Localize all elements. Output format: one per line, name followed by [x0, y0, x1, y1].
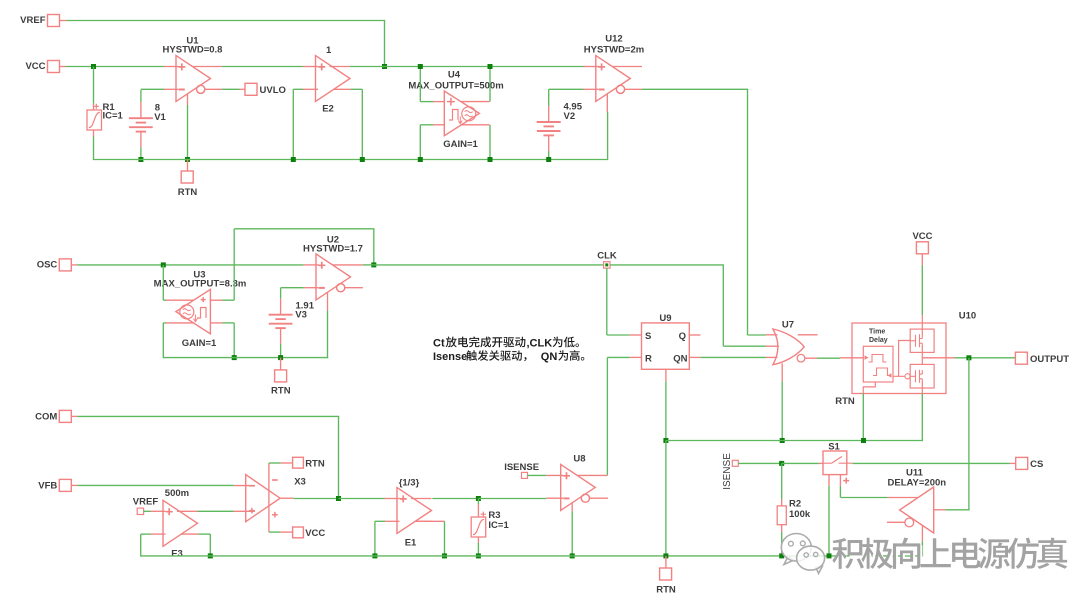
junction U7 ground / RTN rail: [780, 438, 785, 443]
U1 - input stub: [164, 88, 179, 90]
U2 output stub: [345, 287, 363, 289]
wire VREF horizontal: [67, 20, 386, 22]
wire OSC down to U3 out+: [162, 265, 164, 300]
buffer E2 in+ inner line: [330, 66, 351, 68]
wire R2 to bottom rail: [781, 532, 783, 557]
wire E3 out- horizontal: [198, 533, 210, 535]
svg-text:X3: X3: [294, 477, 306, 488]
wire U4 out+ to top rail: [489, 67, 491, 102]
junction RTN vertical / bottom rail: [663, 553, 668, 558]
U1 + input stub: [164, 66, 179, 68]
vcvs E3 in- stub: [151, 533, 166, 535]
op-amp U1 - glyph: [179, 89, 185, 91]
driver U10 outer box: [852, 323, 946, 394]
U3 out+ stub: [166, 299, 194, 301]
port VCC square: [48, 61, 60, 73]
port VCC square (top right): [916, 242, 928, 254]
U8 ground pin stub: [571, 503, 573, 512]
wire RTN vertical to bottom rail: [665, 441, 667, 556]
op-amp U2 + glyph: [318, 262, 325, 269]
wire V1 to U1 -: [141, 88, 164, 90]
svg-text:IC=1: IC=1: [103, 111, 124, 122]
svg-text:Q: Q: [679, 331, 686, 342]
U1 output stub: [205, 88, 222, 90]
wire U1 output to UVLO: [222, 88, 240, 90]
mosfet M2 symbol: [910, 370, 922, 383]
wire V3 to mid rail: [280, 344, 282, 358]
junction R2 / bottom rail: [779, 553, 784, 558]
svg-text:{1/3}: {1/3}: [399, 478, 420, 489]
wire R1 to ground rail: [93, 137, 95, 161]
U10 VCC feed line inside: [921, 315, 923, 394]
watermark wechat logo eyes: [789, 541, 818, 557]
junction VCC / R1: [91, 64, 96, 69]
V1 top stub: [140, 102, 142, 118]
svg-text:U10: U10: [959, 311, 976, 322]
wire U11 ground pin to rail: [921, 542, 923, 557]
wire R2 top: [781, 463, 783, 499]
X3 supply line vertical: [268, 463, 270, 532]
driver U10 gate link lines: [893, 341, 910, 377]
resistor R3 body: [471, 517, 486, 537]
svg-text:Time: Time: [869, 329, 885, 336]
limiter U3 step glyph: [197, 308, 206, 319]
junction U4 in- / ground rail: [418, 157, 423, 162]
port VCC square (X3): [293, 527, 304, 538]
op-amp U8 - glyph: [564, 497, 570, 499]
U12 ground pin stub: [606, 94, 608, 112]
driver U10 input arrow glyph: [865, 355, 869, 360]
wire E2 out- horizontal: [351, 88, 363, 90]
wire U10 output to OUTPUT port: [955, 357, 1016, 359]
U1 ground pin stub: [187, 94, 189, 105]
wire U2 ground pin down: [327, 311, 329, 359]
svg-text:ISENSE: ISENSE: [722, 453, 733, 490]
limiter U4 source circle glyph: [462, 107, 476, 121]
vcvs E1 in+ inner line: [411, 498, 432, 500]
op-amp U2 body: [316, 254, 351, 300]
X3 output stub: [280, 497, 294, 499]
wire U12 output into U7 upper input: [748, 334, 766, 336]
wire E2 in- horizontal: [293, 88, 303, 90]
nor-gate U7 body: [773, 329, 804, 365]
vcvs E3 in+ inner line: [177, 510, 198, 512]
wire E1 in- down to rail: [374, 521, 376, 556]
wire U3 in+ up to loop: [233, 229, 235, 300]
wire OSC line to U2 +: [77, 264, 303, 266]
U4 in+ stub: [433, 101, 444, 103]
U3 in+ stub: [210, 299, 222, 301]
svg-text:OSC: OSC: [37, 259, 58, 270]
driver U10 pulse glyph 2: [873, 368, 891, 376]
port RTN square (bottom): [660, 568, 672, 580]
wire U3 out+ horizontal: [163, 299, 166, 301]
wire OSC line to CLK: [374, 264, 604, 266]
junction E3 out- / bottom rail: [208, 553, 213, 558]
wire R3 to bottom rail: [477, 543, 479, 557]
resistor R1 body: [87, 110, 102, 130]
svg-text:500m: 500m: [165, 488, 189, 499]
watermark text white layer: [834, 540, 1069, 571]
S1 control stub: [839, 475, 841, 486]
flip-flop U9 box: [642, 323, 690, 369]
vcvs E1 in+ line: [385, 498, 400, 500]
vcvs E3 body: [163, 500, 198, 546]
wire U12 output down to U7: [747, 89, 749, 335]
U2 + input stub: [304, 264, 319, 266]
R2 top stub: [781, 499, 783, 506]
wire CLK to U7 mid input: [723, 345, 766, 347]
svg-text:100k: 100k: [789, 509, 811, 520]
junction S1 / bottom rail: [827, 553, 832, 558]
wire VREF marker to E3: [144, 510, 151, 512]
wire CLK to the right: [610, 264, 724, 266]
U3 in- stub: [210, 322, 222, 324]
E1 out- stub long: [416, 520, 445, 522]
U2 + line extension: [333, 264, 363, 266]
U12 - input stub: [584, 88, 599, 90]
junction VREF / VCC rail: [382, 64, 387, 69]
svg-text:R2: R2: [789, 499, 801, 510]
op-amp U12 - glyph: [599, 89, 605, 91]
wire U12 ground pin to rail: [607, 112, 609, 160]
junction V3 / mid rail: [278, 355, 283, 360]
wire CLK down to U7 mid input: [722, 265, 724, 346]
limiter U4 body: [444, 91, 479, 136]
wire ISENSE to R2 junction: [738, 462, 781, 464]
R2 bottom stub: [781, 525, 783, 532]
RTN stub under U1: [187, 160, 189, 172]
port COM square: [59, 410, 71, 422]
wire S1 to CS port: [853, 462, 1010, 464]
junction E2 out- / rail: [360, 157, 365, 162]
wire U3 out- horizontal: [163, 322, 166, 324]
svg-text:VREF: VREF: [133, 497, 159, 508]
wire OUTPUT node to U11 input: [945, 509, 969, 511]
U7 input stub middle: [766, 345, 779, 347]
wire E2 out- down to rail: [361, 89, 363, 159]
wire X3 V- horizontal: [269, 531, 281, 533]
buffer E2 in- stub: [303, 88, 318, 90]
net marker ISENSE (S1): [732, 460, 738, 466]
svg-text:,CLK: ,CLK: [527, 337, 553, 349]
op-amp U12 body: [596, 56, 631, 102]
port VFB square: [59, 479, 71, 491]
vcvs E1 in- stub: [385, 520, 400, 522]
wire X3 output to junction: [294, 498, 339, 500]
svg-text:VCC: VCC: [912, 231, 932, 242]
svg-text:R: R: [645, 354, 652, 365]
U8 output stub: [590, 497, 608, 499]
svg-text:CS: CS: [1030, 459, 1043, 470]
U8 - input stub: [546, 497, 563, 499]
wire CLK to U9 S horizontal: [607, 334, 630, 336]
driver U10 inner delay box: [863, 346, 893, 382]
svg-text:U4: U4: [448, 70, 461, 81]
wire VFB to X3 in-: [77, 484, 234, 486]
wire V3 top vertical: [280, 288, 282, 299]
wire U2 feedback loop drop: [373, 229, 375, 265]
U10 output line: [922, 357, 954, 359]
wire top ground rail: [94, 159, 608, 161]
vcvs E3 + glyph: [166, 508, 173, 515]
limiter U3 + glyph: [201, 297, 206, 302]
U7 input stub upper: [766, 334, 778, 336]
op-amp U8 body: [561, 464, 596, 510]
svg-text:DELAY=200n: DELAY=200n: [888, 477, 947, 488]
svg-text:E1: E1: [405, 538, 417, 549]
wire E2 out+ rail to U12 +: [350, 66, 585, 68]
svg-text:IC=1: IC=1: [488, 520, 509, 531]
junction E2 in- / rail: [291, 157, 296, 162]
switch S1 contact glyph: [823, 457, 853, 464]
wire V2 top vertical: [548, 89, 550, 106]
U12 + input stub: [584, 66, 599, 68]
X3 in+ line: [234, 510, 255, 512]
op-amp U8 + glyph: [563, 472, 570, 479]
svg-text:GAIN=1: GAIN=1: [182, 338, 217, 349]
svg-text:RTN: RTN: [656, 585, 676, 596]
wire U4 in+ from top rail: [419, 67, 421, 102]
junction U4 out+ / top rail: [488, 64, 493, 69]
port UVLO square: [245, 83, 257, 95]
U11 output stub: [887, 521, 905, 523]
wire U7 ground pin down: [781, 381, 783, 440]
svg-text:UVLO: UVLO: [260, 85, 286, 96]
op-amp U2 output bubble: [337, 284, 345, 292]
svg-text:CLK: CLK: [597, 251, 617, 262]
U9 S input stub: [630, 334, 642, 336]
mosfet M2 box (lower): [910, 364, 934, 388]
net marker ISENSE (U8): [522, 472, 528, 478]
resistor R3 + mark: [481, 512, 486, 517]
nor-gate U7 output bubble: [797, 354, 805, 362]
buffer E2 out- stub: [334, 88, 351, 90]
X3 - glyph (input): [249, 485, 255, 487]
svg-text:V3: V3: [295, 310, 307, 321]
limiter U4 + glyph: [447, 98, 455, 106]
RTN port stub (bottom): [665, 556, 667, 568]
junction U4 in+ / top rail: [418, 64, 423, 69]
X3 + glyph (input): [249, 508, 255, 514]
svg-text:E3: E3: [171, 549, 183, 560]
buffer E2 + glyph: [318, 63, 325, 70]
wire UVLO stub: [240, 88, 246, 90]
voltage source V2 battery plates: [537, 121, 561, 123]
R3 top stub: [477, 504, 479, 517]
resistor R2 body: [777, 506, 786, 525]
wire COM down to X3 out: [338, 416, 340, 498]
S1 bottom-left stub: [828, 475, 830, 486]
svg-text:RTN: RTN: [178, 187, 198, 198]
svg-text:Ct: Ct: [433, 337, 445, 349]
wire VCC down to U10: [921, 265, 923, 315]
wire U2 + to junction: [363, 264, 374, 266]
wire to E1 in+: [339, 498, 386, 500]
wire U3 in- horizontal: [223, 322, 235, 324]
wire S1 bottom-left to rail: [828, 486, 830, 557]
wire V3 to U2 -: [281, 287, 304, 289]
VCC stub down: [921, 254, 923, 265]
wire U12 output horizontal: [642, 88, 748, 90]
wire U4 in- horizontal: [420, 124, 433, 126]
switch S1 box: [823, 451, 847, 475]
svg-text:HYSTWD=2m: HYSTWD=2m: [584, 45, 644, 56]
wire bottom RTN rail: [141, 555, 923, 557]
X3 - glyph (supply): [272, 479, 278, 481]
junction U10 RTN / rail: [861, 438, 866, 443]
R1 bottom stub: [93, 130, 95, 137]
buffer E2 body: [316, 56, 351, 102]
junction U4 out- / ground rail: [488, 157, 493, 162]
S1 left stub: [819, 462, 823, 464]
V3 bottom stub: [280, 328, 282, 344]
U10 RTN pin path: [863, 382, 875, 394]
junction U3 in- / mid rail: [232, 355, 237, 360]
junction R3 / signal: [476, 496, 481, 501]
wire U1 ground pin to rail: [187, 105, 189, 160]
port OSC square: [59, 259, 71, 271]
svg-text:V1: V1: [154, 112, 166, 123]
watermark wechat logo big bubble: [781, 534, 824, 574]
wire OUTPUT node down to U11: [968, 358, 970, 510]
vcvs E1 out- stub: [415, 520, 432, 522]
wire U9 R down to U8 + line: [606, 357, 608, 475]
voltage source V3 battery plates: [269, 314, 293, 316]
wire R3 top: [477, 499, 479, 505]
RTN stub under V3: [280, 358, 282, 370]
wire mid ground rail: [163, 357, 328, 359]
wire VREF stub: [60, 20, 67, 22]
X3 V- stub: [280, 531, 292, 533]
junction OSC / U3 out+: [161, 262, 166, 267]
wire OSC stub: [71, 264, 77, 266]
junction R3 / bottom rail: [476, 553, 481, 558]
port RTN square (mid section): [275, 370, 287, 382]
wire CS stub: [1010, 462, 1016, 464]
wire S1 control to U11: [840, 497, 887, 499]
V3 top stub: [280, 299, 282, 315]
wire VCC junction down to R1: [93, 67, 95, 104]
U11 output bubble: [905, 518, 914, 527]
buffer E2 in+ line: [303, 66, 318, 68]
wire CLK down to U9 S: [606, 268, 608, 335]
vcvs E3 out- stub: [181, 533, 198, 535]
svg-text:VFB: VFB: [38, 480, 57, 491]
svg-text:Delay: Delay: [869, 337, 888, 344]
junction OUTPUT node: [966, 355, 971, 360]
svg-text:HYSTWD=1.7: HYSTWD=1.7: [303, 244, 363, 255]
limiter U3 source circle glyph: [180, 305, 194, 319]
U8 + line extension: [577, 474, 607, 476]
X3 V+ stub: [280, 462, 292, 464]
driver U10 pulse glyph 1: [869, 355, 887, 363]
op-amp U1 output bubble: [197, 85, 205, 93]
wire U9 QN to U7 lower input: [700, 356, 766, 358]
op-amp U1 + glyph: [178, 63, 185, 70]
X3 in- line: [234, 485, 255, 487]
op-amp U8 output bubble: [581, 494, 589, 502]
wire VCC to U1 +: [66, 66, 165, 68]
op-amp X3 body: [246, 475, 280, 522]
port CS square: [1016, 457, 1028, 469]
limiter U3 body: [176, 289, 211, 334]
junction U8 ground / bottom rail: [570, 553, 575, 558]
svg-text:VCC: VCC: [25, 61, 45, 72]
wire U2 feedback loop top: [234, 228, 374, 230]
port RTN square (X3): [293, 457, 304, 468]
junction E1 in- / bottom rail: [372, 553, 377, 558]
voltage source V1 battery plates: [129, 117, 153, 119]
op-amp U12 output bubble: [616, 85, 624, 93]
U3 out- stub: [166, 322, 194, 324]
svg-text:VCC: VCC: [305, 528, 325, 539]
wire U9 ground pin down: [665, 382, 667, 441]
junction V1 / ground rail: [138, 157, 143, 162]
X3 + glyph (supply): [272, 512, 278, 518]
svg-text:OUTPUT: OUTPUT: [1030, 354, 1069, 365]
svg-text:QN: QN: [673, 354, 687, 365]
U10 input stub: [840, 357, 863, 359]
svg-text:V2: V2: [564, 111, 576, 122]
wire U4 in- to ground rail: [419, 125, 421, 160]
U11 ground pin stub: [921, 526, 923, 542]
U2 - input stub: [304, 287, 319, 289]
V2 top stub: [548, 106, 550, 122]
junction X3 out / COM: [336, 496, 341, 501]
svg-text:RTN: RTN: [305, 459, 325, 470]
op-amp U2 - glyph: [319, 287, 325, 289]
wire V2 to ground rail: [548, 151, 550, 160]
wire U8 ground pin down: [571, 512, 573, 557]
svg-text:U7: U7: [782, 320, 794, 331]
wire E2 in- down to rail: [292, 89, 294, 159]
wire COM stub: [71, 415, 77, 417]
U7 upper line extension: [798, 334, 818, 336]
vcvs E1 + glyph: [400, 495, 407, 502]
svg-text:QN: QN: [541, 351, 558, 363]
junction V2 / ground rail: [546, 157, 551, 162]
driver U10 gate link bubble: [905, 374, 910, 379]
junction U9 ground / RTN rail: [663, 438, 668, 443]
U4 out+ stub: [461, 101, 490, 103]
svg-text:S: S: [645, 331, 651, 342]
svg-text:RTN: RTN: [835, 396, 855, 407]
U7 input stub lower: [766, 356, 778, 358]
svg-text:COM: COM: [35, 411, 57, 422]
wire E3 out+ to X3 in+: [198, 510, 234, 512]
U11 right input stub: [934, 509, 946, 511]
delay comparator U11 body: [900, 487, 934, 533]
U9 R input stub: [630, 356, 642, 358]
mosfet M1 box (upper): [910, 329, 934, 352]
wire E3 in- down to bottom rail: [140, 534, 142, 556]
junction ISENSE / R2: [779, 461, 784, 466]
wire X3 V+ horizontal: [269, 462, 281, 464]
port VREF square: [48, 15, 60, 27]
U4 out- stub: [462, 124, 490, 126]
net marker CLK: [604, 262, 610, 268]
driver U10 pulse2 arrow: [888, 373, 892, 378]
wire U4 in+ horizontal: [420, 101, 433, 103]
svg-text:1: 1: [326, 45, 332, 56]
R3 bottom stub: [477, 537, 479, 543]
U9 ground pin stub: [665, 369, 667, 381]
wire U4 out- to ground rail: [489, 125, 491, 160]
limiter U4 step glyph: [449, 110, 458, 121]
wire E3 in- horizontal: [141, 533, 151, 535]
wire V2 to U12 -: [549, 88, 584, 90]
